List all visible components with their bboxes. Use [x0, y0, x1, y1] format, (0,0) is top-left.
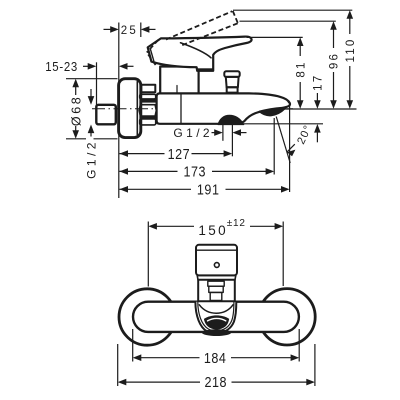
ext 150 left [147, 222, 149, 287]
svg-text:96: 96 [329, 52, 341, 69]
body and spout side view [157, 93, 290, 123]
aerator rim arc front [199, 305, 233, 313]
body joint line [180, 95, 182, 123]
svg-text:G1/2: G1/2 [84, 139, 98, 179]
g12 left dim line [90, 89, 92, 98]
g12 spout dim lines [212, 132, 216, 134]
spout front inner line [198, 302, 234, 331]
handle skirt front [197, 275, 236, 279]
svg-text:Ø68: Ø68 [69, 95, 83, 126]
aerator highlight [208, 318, 226, 321]
axis ext right [284, 108, 357, 110]
dim 127 [119, 153, 164, 155]
s-union nut side view [139, 94, 156, 125]
svg-text:110: 110 [345, 38, 357, 63]
escutcheon side view [119, 79, 141, 138]
escutcheon front face line [136, 82, 138, 135]
dimensions front view [118, 222, 315, 387]
ref line y124 [244, 123, 324, 125]
spout front outer [195, 302, 236, 334]
ext 96 [240, 20, 336, 22]
dim 110 [349, 17, 351, 34]
ext 150 right [282, 222, 284, 287]
dim127 arrows [119, 150, 128, 157]
dim 184 lines [141, 357, 200, 359]
labels front view [198, 218, 245, 390]
centerline axis side view [92, 108, 293, 110]
g12 left arrows [88, 96, 95, 105]
dim 173 [119, 170, 177, 172]
spout tip inner line [277, 96, 289, 103]
dim 81 [299, 44, 301, 56]
dim25 arrows [110, 26, 119, 33]
collar inner line [176, 86, 178, 94]
handle front [196, 245, 237, 276]
aerator dome side view [218, 115, 244, 124]
dim81 arrows [297, 37, 304, 46]
ext 191 [289, 106, 291, 192]
angle20 arrow [287, 150, 296, 157]
dim110 arrows [347, 10, 354, 19]
labels upper view [45, 25, 357, 198]
dim173 arrows [119, 168, 128, 175]
dim 218 lines [126, 381, 200, 383]
dim15-23 arrows [88, 63, 97, 70]
wall nipple side view [96, 105, 116, 125]
extension line A wall x=96.5 [96, 62, 98, 105]
svg-text:G1/2: G1/2 [173, 126, 213, 140]
oe68 extension top [66, 78, 118, 80]
aerator bowl front [204, 315, 229, 329]
cartridge steps [208, 281, 224, 286]
svg-text:25: 25 [121, 25, 138, 37]
dim218 arrows [118, 379, 127, 386]
ext 184 right [298, 329, 300, 362]
diverter knob side view [224, 71, 239, 92]
handle screw [214, 263, 219, 268]
dim184 arrows [133, 354, 142, 361]
left escutcheon front [119, 289, 175, 345]
s-union upper connector [141, 85, 155, 93]
dim 191 [119, 188, 191, 190]
dim 25 lines [104, 28, 113, 30]
handle back inner line [150, 49, 154, 61]
right escutcheon front [259, 289, 315, 345]
ext 110 [233, 9, 352, 11]
arrows front view [118, 223, 315, 385]
svg-text:81: 81 [295, 60, 307, 77]
dim 96 [333, 28, 335, 48]
handle bottom front bar [198, 68, 214, 71]
svg-text:191: 191 [197, 182, 220, 198]
handle swoosh line [181, 43, 212, 58]
dim150 arrows [148, 223, 157, 230]
g12 spout arrows [214, 129, 223, 136]
extension line C x=140.8 [140, 23, 142, 38]
svg-text:218: 218 [205, 374, 228, 390]
svg-text:184: 184 [204, 350, 227, 366]
angle 20 line [276, 117, 290, 164]
svg-text:15-23: 15-23 [45, 60, 78, 75]
angle 20 leader [287, 144, 295, 152]
g12 spout ext lines [222, 125, 224, 141]
dim191 arrows [119, 186, 128, 193]
ext 81 [247, 36, 303, 38]
svg-text:173: 173 [184, 164, 207, 180]
oe68 dim line [75, 85, 77, 95]
dim17 arrows [314, 100, 321, 109]
svg-text:17: 17 [313, 74, 325, 91]
ext 218 right [314, 344, 316, 386]
handle side view [148, 37, 252, 71]
svg-text:±12: ±12 [227, 218, 246, 229]
dim96 arrows [330, 21, 337, 30]
dim 150 lines [152, 225, 194, 227]
cartridge collar side view [160, 67, 198, 94]
handle raised dashed outline [147, 11, 238, 66]
svg-text:127: 127 [168, 146, 191, 162]
ext 218 left [117, 344, 119, 386]
oe68 extension bottom [66, 138, 86, 140]
aerator foot [202, 329, 231, 336]
ext 173 [273, 118, 275, 175]
oe68 arrows [72, 79, 79, 88]
dim 17 [316, 93, 318, 101]
svg-text:150: 150 [198, 223, 228, 238]
body capsule front [133, 302, 299, 332]
dim 15-23 lines [83, 65, 90, 67]
arrows upper view [72, 10, 353, 192]
extension line B x=118.8 [118, 23, 120, 199]
ext 184 left [132, 329, 134, 362]
handle front lip line [197, 249, 237, 251]
spout mouth crescent [259, 107, 285, 116]
cartridge block front [198, 280, 235, 301]
